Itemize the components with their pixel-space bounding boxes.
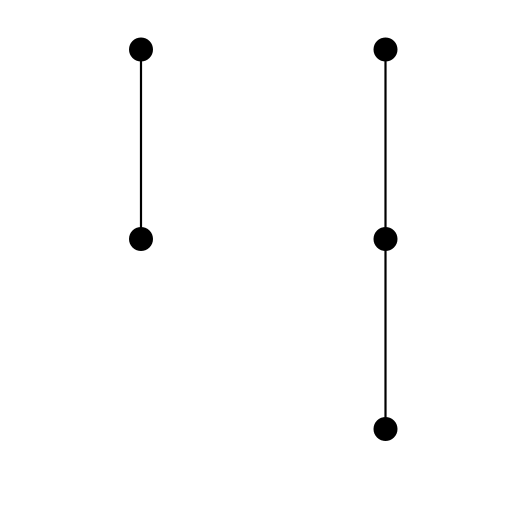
node E (374, 417, 398, 441)
node A (129, 38, 153, 62)
wire: right edge node C to node D (384, 50, 386, 240)
node C (374, 38, 398, 62)
node B (129, 227, 153, 251)
wire: left edge node A to node B (140, 50, 142, 240)
node D (374, 227, 398, 251)
wire: right edge node D to node E (384, 239, 386, 429)
